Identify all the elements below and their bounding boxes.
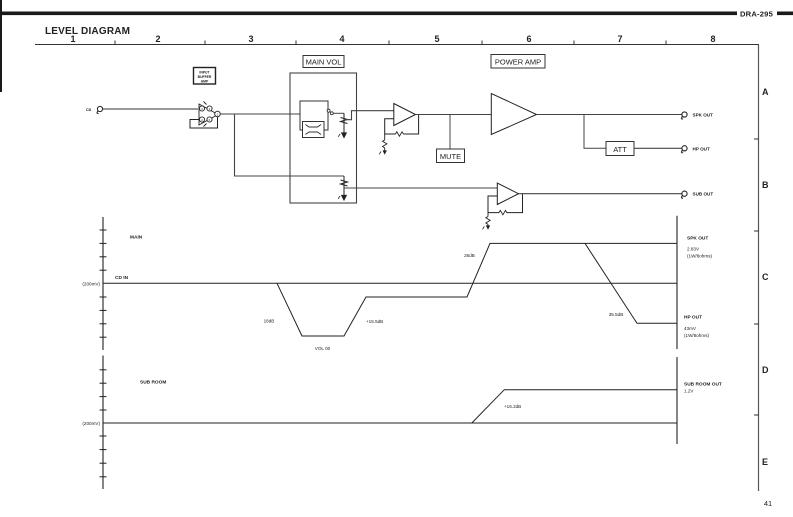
label box INPUT BUFFER AMP xyxy=(194,68,216,85)
feedback wire IC1 xyxy=(190,117,218,128)
svg-text:6: 6 xyxy=(526,34,531,44)
connector CD IN jack xyxy=(97,106,103,113)
connector HP OUT xyxy=(681,146,687,153)
svg-text:41: 41 xyxy=(764,499,772,508)
svg-text:AMP: AMP xyxy=(201,80,209,84)
svg-text:SUB ROOM OUT: SUB ROOM OUT xyxy=(684,381,722,387)
svg-text:HP OUT: HP OUT xyxy=(693,146,710,151)
wire branch to MUTE xyxy=(449,115,451,150)
power amp triangle xyxy=(491,94,536,135)
svg-text:43mV: 43mV xyxy=(684,326,697,331)
label MAIN VOL xyxy=(303,56,344,68)
svg-text:CD: CD xyxy=(86,108,92,112)
resistor R1 feedback U2 xyxy=(396,132,404,136)
svg-text:SUB ROOM: SUB ROOM xyxy=(140,380,166,386)
resistor R3 feedback U3 xyxy=(499,210,507,214)
wire branch to ATT xyxy=(584,115,606,149)
ticks axis sub xyxy=(100,370,107,477)
line CD IN reference xyxy=(103,282,677,284)
svg-text:MAIN: MAIN xyxy=(130,235,143,241)
ruler line xyxy=(35,44,759,46)
right frame line xyxy=(758,45,760,492)
svg-text:POWER AMP: POWER AMP xyxy=(495,58,541,67)
box ATT xyxy=(606,142,634,156)
svg-text:SPK OUT: SPK OUT xyxy=(687,236,708,242)
curve main level xyxy=(277,243,677,336)
right axis sub level xyxy=(676,357,678,444)
wire ATT to HP OUT xyxy=(634,147,682,149)
svg-text:VOL 00: VOL 00 xyxy=(315,346,331,351)
svg-text:INPUT: INPUT xyxy=(199,71,210,75)
attenuator main (variable) xyxy=(338,113,347,137)
svg-text:A: A xyxy=(762,87,769,97)
op-amp U2 main xyxy=(394,104,416,126)
wire sub attenuator tap to sub amp xyxy=(344,187,497,189)
svg-text:ATT: ATT xyxy=(613,145,627,154)
svg-text:MUTE: MUTE xyxy=(440,152,461,161)
connector SPK OUT xyxy=(681,112,687,119)
svg-text:18dB: 18dB xyxy=(264,319,275,324)
volume element VR1 xyxy=(300,101,328,138)
wire main attenuator tap to op-amp xyxy=(344,111,394,120)
wire wiper to main attenuator xyxy=(333,112,344,114)
svg-text:+16.2dB: +16.2dB xyxy=(504,404,521,409)
svg-text:8: 8 xyxy=(710,34,715,44)
top bar xyxy=(0,12,737,16)
svg-text:(200mV): (200mV) xyxy=(82,281,100,286)
svg-text:MAIN VOL: MAIN VOL xyxy=(306,58,342,67)
svg-text:BUFFER: BUFFER xyxy=(198,75,212,79)
svg-text:(1W/8ohms): (1W/8ohms) xyxy=(684,333,709,338)
svg-text:4: 4 xyxy=(339,34,344,44)
svg-text:26dB: 26dB xyxy=(464,253,475,258)
curve sub level xyxy=(472,390,677,423)
wire U3 out to SUB OUT xyxy=(519,193,682,195)
right axis main level xyxy=(676,216,678,349)
ruler numbers xyxy=(70,34,715,44)
ruler ticks xyxy=(115,41,666,45)
svg-text:7: 7 xyxy=(617,34,622,44)
zone letters xyxy=(762,87,769,467)
connector SUB OUT xyxy=(681,191,687,198)
label box POWER AMP xyxy=(491,55,545,69)
pin numbers IC1 xyxy=(201,107,219,122)
svg-text:C: C xyxy=(762,272,769,282)
svg-text:3: 3 xyxy=(248,34,253,44)
zone ticks xyxy=(754,139,759,415)
svg-text:(200mV): (200mV) xyxy=(82,421,100,426)
wire power amp to SPK OUT xyxy=(537,114,682,116)
wire buffer out to MAIN VOL xyxy=(220,113,300,115)
node branch to sub path xyxy=(235,114,345,176)
svg-text:SPK OUT: SPK OUT xyxy=(693,113,714,118)
svg-text:LEVEL DIAGRAM: LEVEL DIAGRAM xyxy=(45,26,130,37)
svg-text:B: B xyxy=(762,180,769,190)
axis main level diagram xyxy=(102,217,104,350)
feedback loop U3 xyxy=(488,194,523,213)
ground arrow U2 xyxy=(383,150,387,154)
switch contacts VR1 wiper xyxy=(327,109,333,115)
box MAIN VOL xyxy=(290,73,357,203)
svg-text:HP OUT: HP OUT xyxy=(684,314,702,320)
svg-text:1: 1 xyxy=(70,34,75,44)
svg-text:DRA-295: DRA-295 xyxy=(740,10,774,19)
svg-text:5: 5 xyxy=(434,34,439,44)
svg-text:1.2V: 1.2V xyxy=(684,389,694,394)
svg-text:2.83V: 2.83V xyxy=(687,247,700,252)
svg-text:35.5dB: 35.5dB xyxy=(609,312,624,317)
svg-text:2: 2 xyxy=(155,34,160,44)
line sub reference xyxy=(103,422,677,424)
axis sub level diagram xyxy=(102,356,104,490)
left edge strip xyxy=(0,0,2,92)
resistor R4 to ground xyxy=(486,213,490,227)
svg-text:(1W/8ohms): (1W/8ohms) xyxy=(687,254,712,259)
svg-text:CD IN: CD IN xyxy=(115,275,129,281)
resistor R2 to ground xyxy=(383,134,387,152)
wire CD jack to input buffer xyxy=(103,108,198,110)
ticks axis main xyxy=(100,230,107,337)
attenuator sub (variable) xyxy=(338,176,347,200)
feedback loop U2 xyxy=(385,115,419,135)
box MUTE xyxy=(437,149,465,163)
svg-text:E: E xyxy=(762,457,768,467)
op-amp U3 sub xyxy=(497,183,518,205)
svg-text:+15.5dB: +15.5dB xyxy=(366,319,383,324)
svg-text:D: D xyxy=(762,365,769,375)
wire U2 out to power amp xyxy=(416,114,492,116)
ground arrow U3 xyxy=(486,225,490,229)
op-amp IC1 input buffer amp xyxy=(199,102,220,127)
svg-text:SUB OUT: SUB OUT xyxy=(693,192,714,197)
